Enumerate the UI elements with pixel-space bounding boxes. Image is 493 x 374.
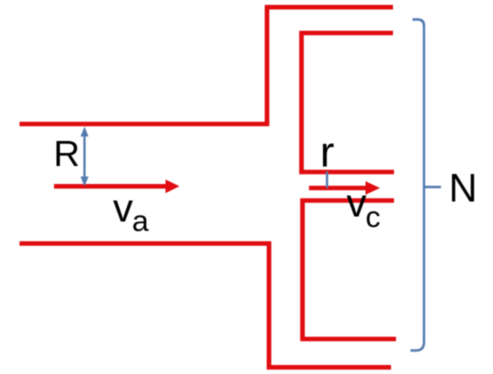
svg-text:N: N <box>449 167 478 211</box>
svg-text:v: v <box>113 187 133 231</box>
arrow v_c velocity <box>309 181 380 194</box>
svg-text:a: a <box>132 205 149 238</box>
arrow v_a velocity <box>54 180 180 194</box>
wire outer top wall of wide channel <box>20 7 394 124</box>
svg-text:R: R <box>54 133 80 174</box>
wire inner bottom wall of narrow channel <box>303 201 397 340</box>
svg-text:v: v <box>347 182 367 226</box>
bracket N (right square bracket, blue) <box>411 20 442 351</box>
dimension arrow R (double headed, blue) <box>81 127 89 187</box>
wire inner top wall of narrow channel <box>302 33 395 172</box>
dimension line r (blue) <box>326 172 328 189</box>
wire outer bottom wall of wide channel <box>20 244 392 368</box>
svg-text:c: c <box>366 201 381 234</box>
svg-text:r: r <box>320 128 334 176</box>
